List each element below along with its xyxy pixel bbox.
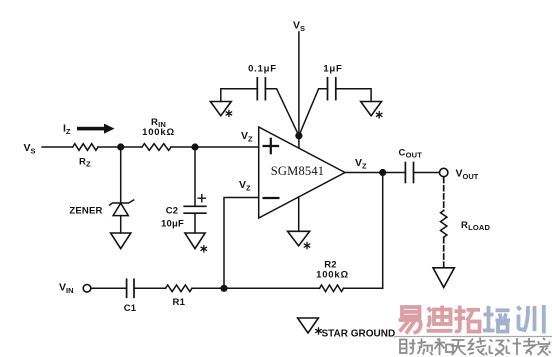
node VOUT terminal circle <box>440 168 448 176</box>
resistor RIN label <box>151 117 166 129</box>
watermark small char ji <box>507 338 522 355</box>
svg-text:STAR GROUND: STAR GROUND <box>322 329 396 340</box>
asterisk on C2 ground <box>201 246 206 252</box>
watermark char xun <box>518 305 544 334</box>
wire right of 1uF cap <box>336 89 371 102</box>
capacitor 0.1uF value label <box>248 64 277 75</box>
asterisk on op-amp ground <box>304 243 309 249</box>
op-amp name SGM8541 <box>271 164 325 178</box>
capacitor 1uF plates <box>328 78 336 100</box>
wire RZ to RIN <box>98 146 142 148</box>
wire VS vertical down to op-amp top edge <box>298 32 300 148</box>
wire C2 to ground <box>194 213 196 233</box>
wire op-amp output <box>345 172 405 174</box>
svg-text:C1: C1 <box>124 303 137 314</box>
watermark small char she <box>400 339 416 354</box>
resistor RLOAD <box>441 211 447 238</box>
wire right of 0.1uF cap diagonal to VS node <box>265 89 299 136</box>
watermark small char zhuan <box>523 338 536 355</box>
current IZ arrow <box>77 124 115 134</box>
resistor R2 label <box>324 260 337 271</box>
resistor RZ <box>73 144 98 151</box>
svg-text:100kΩ: 100kΩ <box>142 127 175 138</box>
svg-text:RLOAD: RLOAD <box>461 220 490 232</box>
node VIN terminal label <box>59 282 74 296</box>
svg-text:100kΩ: 100kΩ <box>316 269 349 280</box>
svg-text:VS: VS <box>293 20 305 34</box>
node VS input label left <box>24 142 36 156</box>
svg-text:R1: R1 <box>173 297 186 308</box>
asterisk star ground <box>316 328 321 334</box>
capacitor 1uF value label <box>323 64 342 75</box>
capacitor C2 plus polarity mark <box>198 195 205 202</box>
resistor R2 value 100k <box>316 269 349 280</box>
wire feedback vertical <box>382 173 384 289</box>
svg-text:10μF: 10μF <box>161 218 184 229</box>
node VIN terminal circle <box>83 285 91 293</box>
svg-text:VOUT: VOUT <box>456 168 479 182</box>
node output junction dot <box>379 169 386 176</box>
capacitor C1 label <box>124 303 137 314</box>
svg-text:C2: C2 <box>166 206 179 217</box>
wire left of 0.1uF cap <box>221 89 257 102</box>
ground top-left (star) <box>210 102 231 116</box>
watermark small char jia <box>538 338 551 356</box>
capacitor C2 value 10uF <box>161 218 184 229</box>
op-amp minus input symbol <box>264 197 279 199</box>
svg-text:VZ: VZ <box>241 130 253 144</box>
node feedback junction dot <box>220 285 227 292</box>
wire R1 to R2 <box>192 287 320 289</box>
watermark small char tian <box>451 340 466 355</box>
capacitor 0.1uF plates <box>257 78 265 100</box>
capacitor C2 plates <box>184 206 206 213</box>
watermark underline <box>394 336 552 338</box>
resistor R1 <box>166 285 192 292</box>
node C2 junction dot <box>191 143 198 150</box>
op-amp U1 SGM8541 triangle <box>259 127 345 218</box>
wire left of 1uF cap diagonal from VS node <box>299 89 328 136</box>
ground star ground symbol <box>298 318 319 333</box>
resistor RIN <box>142 144 171 151</box>
watermark small text she pin he tian xian she ji zhuan jia <box>400 338 551 356</box>
watermark small char xian <box>469 338 488 356</box>
node VZ label output <box>355 157 367 171</box>
node VZ label minus input <box>239 179 251 193</box>
watermark big text yi di tuo pei xun <box>399 305 544 334</box>
op-amp plus input symbol <box>264 139 278 153</box>
svg-text:VS: VS <box>24 142 36 156</box>
resistor R2 <box>320 285 344 292</box>
asterisk on top-left ground <box>226 110 231 116</box>
wire C1 to R1 <box>134 287 166 289</box>
watermark small char pin <box>418 339 433 356</box>
ground below zener <box>111 233 131 249</box>
svg-text:VZ: VZ <box>239 179 251 193</box>
wire VS to RZ <box>42 146 73 148</box>
resistor RLOAD label <box>461 220 490 232</box>
wire VIN to C1 <box>91 287 127 289</box>
svg-text:IZ: IZ <box>63 123 71 137</box>
svg-text:SGM8541: SGM8541 <box>271 164 325 178</box>
star ground text <box>322 329 396 340</box>
wire op-amp ground branch <box>298 197 300 231</box>
node VS supply label <box>293 20 305 34</box>
svg-text:RZ: RZ <box>79 157 91 169</box>
capacitor C2 label <box>166 206 179 217</box>
capacitor COUT label <box>399 148 423 160</box>
watermark char tuo <box>455 306 481 332</box>
watermark small char he <box>435 339 454 356</box>
wire R2 to feedback vertical <box>344 287 383 289</box>
svg-text:0.1μF: 0.1μF <box>248 64 277 75</box>
watermark char yi <box>399 307 421 334</box>
node zener junction dot <box>117 143 124 150</box>
svg-text:COUT: COUT <box>399 148 423 160</box>
watermark char pei <box>483 306 510 332</box>
node supply junction dot <box>295 132 302 139</box>
capacitor COUT plates <box>405 163 413 183</box>
ground top-right (star) <box>361 102 382 116</box>
ground below C2 (star) <box>185 233 205 249</box>
watermark small char she2 <box>490 340 504 356</box>
ground below RLOAD <box>433 268 454 288</box>
ground below op-amp (star) <box>288 231 310 246</box>
wire zener branch down <box>120 147 122 203</box>
wire COUT to VOUT terminal <box>414 172 440 174</box>
node VZ label plus input <box>241 130 253 144</box>
svg-text:VZ: VZ <box>355 157 367 171</box>
wire zener to ground <box>120 216 122 233</box>
current IZ label <box>63 123 71 137</box>
resistor RIN value 100k <box>142 127 175 138</box>
resistor RZ label <box>79 157 91 169</box>
zener label <box>69 206 102 217</box>
asterisk on top-right ground <box>377 112 382 118</box>
svg-text:1μF: 1μF <box>323 64 342 75</box>
svg-text:ZENER: ZENER <box>69 206 102 217</box>
wire RIN to op-amp plus input <box>171 146 259 148</box>
zener diode ZENER <box>110 200 134 216</box>
svg-text:VIN: VIN <box>59 282 74 296</box>
resistor R1 label <box>173 297 186 308</box>
wire C2 branch down <box>194 147 196 206</box>
wire dashed RLOAD to ground <box>443 238 445 267</box>
wire dashed VOUT to RLOAD <box>443 178 445 211</box>
watermark char di <box>427 306 453 331</box>
capacitor C1 plates <box>127 279 134 297</box>
node VOUT label <box>456 168 479 182</box>
wire minus input <box>224 198 259 289</box>
